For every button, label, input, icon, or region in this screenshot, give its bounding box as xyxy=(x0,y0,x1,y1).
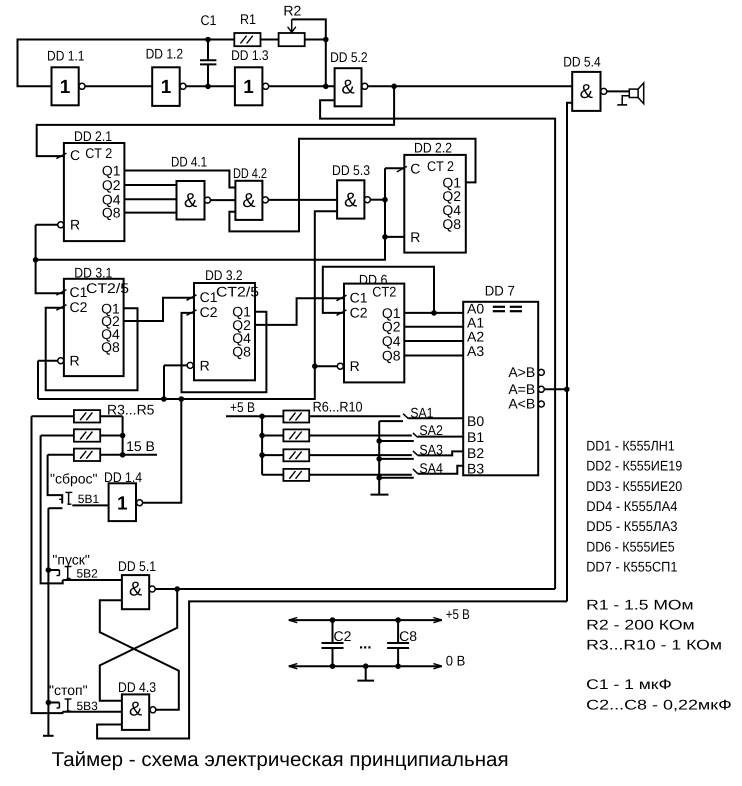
svg-text:Q8: Q8 xyxy=(232,343,251,359)
svg-text:DD 7: DD 7 xyxy=(485,283,515,299)
svg-text:0 В: 0 В xyxy=(446,653,466,669)
svg-text:5В2: 5В2 xyxy=(77,567,99,581)
svg-text:B3: B3 xyxy=(467,461,484,477)
svg-text:DD1 - К555ЛН1: DD1 - К555ЛН1 xyxy=(586,437,675,453)
svg-text:...: ... xyxy=(359,636,372,653)
svg-text:15 В: 15 В xyxy=(126,438,155,454)
svg-text:CT2/5: CT2/5 xyxy=(86,280,129,296)
svg-text:&: & xyxy=(341,77,355,99)
svg-text:DD 3.1: DD 3.1 xyxy=(74,265,112,281)
svg-text:C1: C1 xyxy=(200,289,218,305)
svg-text:DD 4.3: DD 4.3 xyxy=(118,679,156,695)
svg-text:SA3: SA3 xyxy=(419,441,443,457)
svg-text:R: R xyxy=(350,358,360,374)
svg-text:DD7 - К555СП1: DD7 - К555СП1 xyxy=(586,559,677,575)
svg-text:"стоп": "стоп" xyxy=(49,682,88,698)
svg-text:B1: B1 xyxy=(467,429,484,445)
svg-text:DD 4.2: DD 4.2 xyxy=(233,165,267,181)
svg-text:DD 5.4: DD 5.4 xyxy=(563,53,601,69)
svg-text:DD 5.1: DD 5.1 xyxy=(118,558,156,574)
svg-text:A<B: A<B xyxy=(508,395,535,411)
svg-text:DD 1.4: DD 1.4 xyxy=(104,469,142,485)
svg-text:С1 - 1 мкФ: С1 - 1 мкФ xyxy=(586,676,672,692)
svg-text:A3: A3 xyxy=(467,343,484,359)
svg-text:B2: B2 xyxy=(467,445,484,461)
svg-text:C1: C1 xyxy=(350,289,368,305)
svg-text:R2: R2 xyxy=(283,3,301,19)
svg-text:DD 2.1: DD 2.1 xyxy=(74,128,112,144)
svg-text:"пуск": "пуск" xyxy=(52,552,90,568)
svg-text:Q8: Q8 xyxy=(102,205,121,221)
svg-text:CT2/5: CT2/5 xyxy=(216,283,259,299)
svg-text:A>B: A>B xyxy=(508,364,535,380)
svg-text:C: C xyxy=(70,147,80,163)
svg-text:DD2 - К555ИЕ19: DD2 - К555ИЕ19 xyxy=(586,458,682,474)
svg-text:CT 2: CT 2 xyxy=(85,145,112,161)
svg-text:&: & xyxy=(129,579,143,601)
svg-text:R: R xyxy=(70,353,80,369)
svg-text:C: C xyxy=(410,160,420,176)
svg-text:DD 5.2: DD 5.2 xyxy=(330,49,368,65)
svg-text:&: & xyxy=(580,81,594,103)
svg-text:Q8: Q8 xyxy=(101,339,120,355)
svg-text:DD 4.1: DD 4.1 xyxy=(171,154,207,170)
svg-text:B0: B0 xyxy=(467,413,484,429)
svg-text:CT2: CT2 xyxy=(372,284,396,300)
svg-text:C1: C1 xyxy=(201,12,217,28)
svg-text:"сброс": "сброс" xyxy=(50,471,98,487)
svg-text:SA2: SA2 xyxy=(419,422,443,438)
svg-text:+5 В: +5 В xyxy=(230,399,255,415)
svg-text:Q8: Q8 xyxy=(442,216,461,232)
svg-text:SA1: SA1 xyxy=(410,405,433,421)
svg-text:DD 2.2: DD 2.2 xyxy=(414,140,452,156)
svg-text:&: & xyxy=(129,699,143,721)
svg-text:DD3 - К555ИЕ20: DD3 - К555ИЕ20 xyxy=(586,478,682,494)
svg-text:&: & xyxy=(344,190,358,212)
svg-text:CT 2: CT 2 xyxy=(427,158,454,174)
svg-text:+5 В: +5 В xyxy=(446,606,470,622)
svg-text:SA4: SA4 xyxy=(419,460,443,476)
svg-text:1: 1 xyxy=(60,77,71,98)
svg-text:R6...R10: R6...R10 xyxy=(313,399,363,415)
svg-text:1: 1 xyxy=(243,77,254,98)
svg-text:R1: R1 xyxy=(240,11,256,27)
svg-text:Таймер - схема электрическая п: Таймер - схема электрическая принципиаль… xyxy=(52,749,509,771)
svg-text:5В1: 5В1 xyxy=(78,492,100,506)
svg-text:1: 1 xyxy=(161,77,172,98)
svg-text:DD 1.3: DD 1.3 xyxy=(231,47,269,63)
svg-text:DD 1.2: DD 1.2 xyxy=(146,46,184,62)
svg-text:R3...R10 - 1 КОм: R3...R10 - 1 КОм xyxy=(586,637,722,653)
svg-text:DD4 - К555ЛА4: DD4 - К555ЛА4 xyxy=(586,498,677,514)
svg-text:5В3: 5В3 xyxy=(77,699,99,713)
svg-text:DD 3.2: DD 3.2 xyxy=(205,267,243,283)
svg-text:C2: C2 xyxy=(200,304,218,320)
svg-text:R: R xyxy=(410,229,420,245)
svg-text:C8: C8 xyxy=(399,628,417,644)
svg-text:DD 1.1: DD 1.1 xyxy=(47,47,85,63)
svg-text:C1: C1 xyxy=(70,284,88,300)
svg-text:Q8: Q8 xyxy=(382,348,401,364)
svg-text:R1 - 1.5 МОм: R1 - 1.5 МОм xyxy=(586,597,693,613)
svg-text:DD5 - К555ЛА3: DD5 - К555ЛА3 xyxy=(586,518,677,534)
svg-text:C2: C2 xyxy=(350,304,368,320)
svg-text:С2...С8 - 0,22мкФ: С2...С8 - 0,22мкФ xyxy=(586,696,732,712)
svg-text:C2: C2 xyxy=(334,628,352,644)
svg-text:DD 5.3: DD 5.3 xyxy=(332,162,370,178)
svg-text:&: & xyxy=(242,190,256,212)
svg-text:R: R xyxy=(70,217,80,233)
svg-text:1: 1 xyxy=(117,493,128,514)
svg-text:DD6 - К555ИЕ5: DD6 - К555ИЕ5 xyxy=(586,538,675,554)
svg-text:R: R xyxy=(200,357,210,373)
svg-text:R2 - 200 КОм: R2 - 200 КОм xyxy=(586,617,695,633)
svg-text:R3...R5: R3...R5 xyxy=(107,402,155,418)
svg-text:C2: C2 xyxy=(70,299,88,315)
svg-text:&: & xyxy=(184,190,198,212)
